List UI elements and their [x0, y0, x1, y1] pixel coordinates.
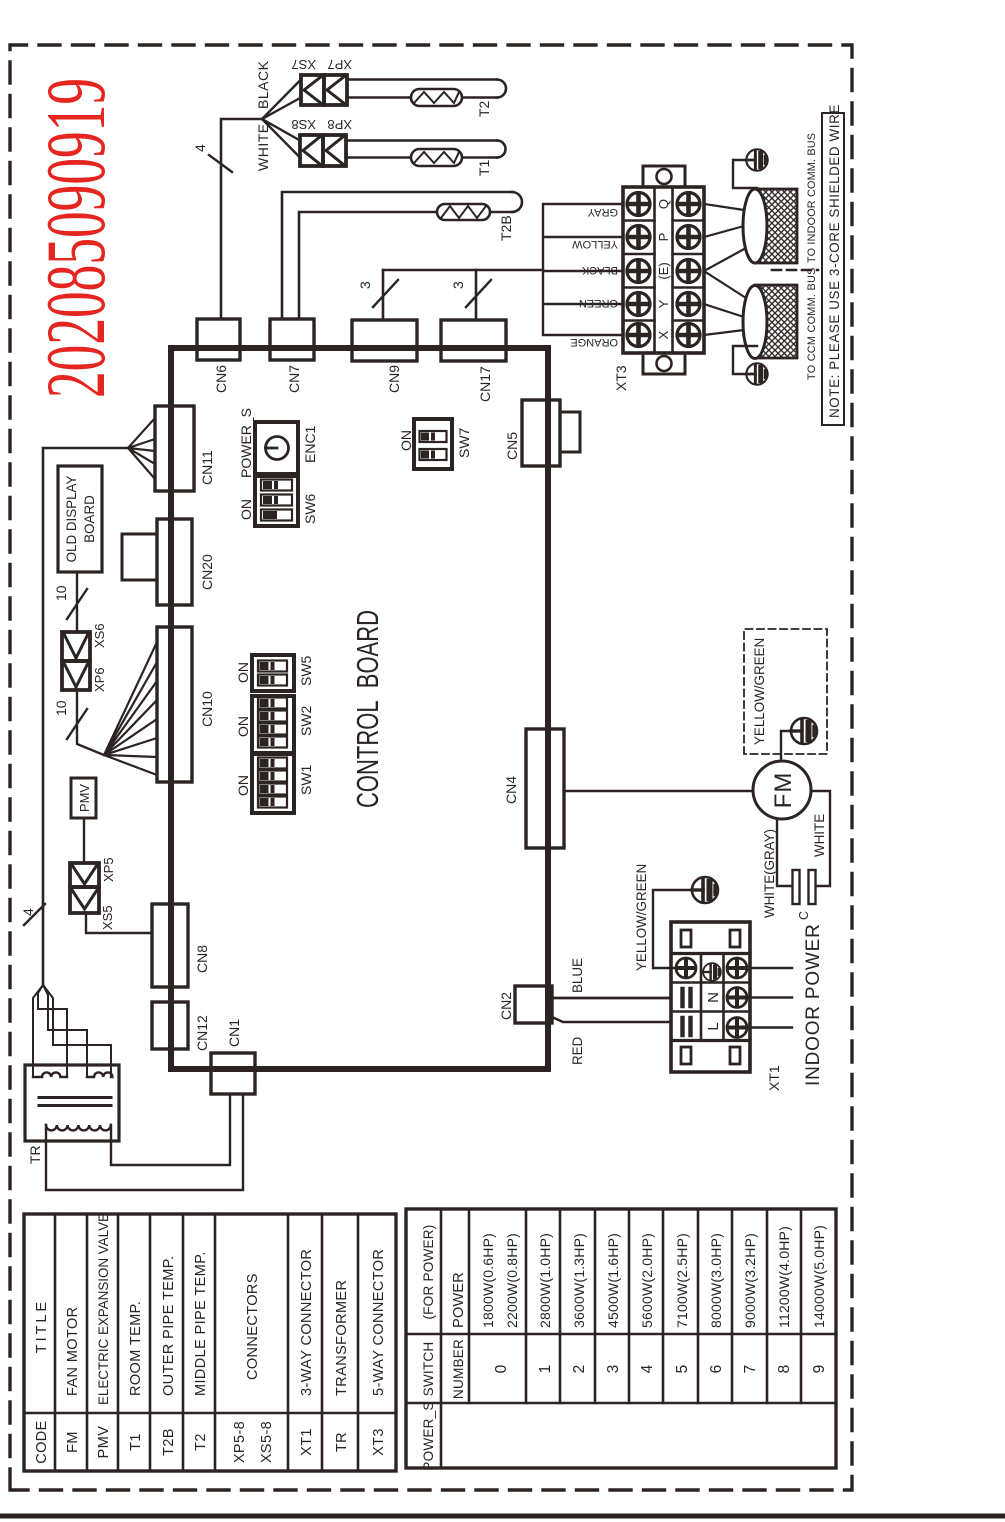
svg-text:XP5: XP5: [101, 857, 116, 882]
svg-text:ON: ON: [235, 716, 251, 737]
terminal block XT1: [671, 922, 782, 1091]
svg-text:XT3: XT3: [613, 365, 629, 391]
wire CN2 to XT1 (blue): [552, 997, 671, 1000]
bundle slash 4 on transformer wire: [20, 904, 45, 925]
svg-text:CONTROL BOARD: CONTROL BOARD: [350, 610, 385, 808]
wire CN11 fan-out: [128, 418, 155, 479]
svg-text:CN9: CN9: [386, 365, 402, 393]
wire label BLACK: [581, 264, 618, 276]
svg-text:XT1: XT1: [299, 1428, 315, 1456]
svg-text:WHITE(GRAY): WHITE(GRAY): [762, 829, 777, 918]
bundle slash 3 on CN9 stub: [357, 280, 398, 307]
svg-text:XT1: XT1: [766, 1065, 782, 1091]
wire TR secondary to CN1 (inner): [111, 1094, 230, 1165]
wire CN17 stub to comm bus: [475, 270, 478, 319]
wire CN2 to XT1 (red): [552, 1017, 671, 1022]
wire label RED: [570, 1036, 585, 1065]
svg-text:7100W(2.5HP): 7100W(2.5HP): [674, 1233, 690, 1328]
svg-text:POWER_S: POWER_S: [421, 1401, 436, 1470]
document number stamp 202085090919: [29, 78, 123, 398]
svg-text:SW2: SW2: [298, 705, 314, 736]
bundle slash 10 on display wire: [53, 585, 87, 619]
svg-text:N: N: [705, 992, 722, 1003]
svg-text:SW7: SW7: [456, 427, 472, 458]
svg-text:1: 1: [537, 1365, 554, 1374]
wire XS6 to old display board: [76, 572, 78, 632]
svg-text:4: 4: [20, 908, 36, 916]
svg-text:1800W(0.6HP): 1800W(0.6HP): [480, 1233, 496, 1328]
wire label YELLOW/GREEN (xt1): [634, 864, 649, 971]
connector pair XP5: [70, 857, 116, 887]
wire XT1 earth screw to ground: [653, 890, 691, 968]
wire label WHITE: [255, 123, 271, 171]
svg-text:NUMBER: NUMBER: [451, 1339, 466, 1399]
wire XS5 to CN8: [86, 913, 152, 933]
svg-text:7: 7: [742, 1365, 759, 1374]
svg-text:CN4: CN4: [503, 776, 519, 804]
wire label BLACK: [255, 60, 271, 109]
svg-text:SWITCH: SWITCH: [421, 1342, 436, 1397]
wire FM to capacitor (right lead): [811, 791, 830, 886]
svg-text:TR: TR: [27, 1145, 43, 1164]
wire CN6 to sensor bundle node: [221, 119, 262, 319]
fan motor FM: [753, 761, 811, 819]
wire XT3 comb bus and screw stubs: [543, 204, 623, 335]
svg-text:T2: T2: [193, 1433, 209, 1451]
wire label WHITE: [812, 814, 827, 857]
svg-text:FM: FM: [770, 772, 797, 809]
thermistor T1 sensor loop: [346, 141, 506, 177]
svg-text:SW5: SW5: [298, 655, 314, 686]
svg-text:BLACK: BLACK: [255, 60, 271, 109]
svg-text:5: 5: [674, 1365, 691, 1374]
svg-text:XS5: XS5: [100, 905, 115, 930]
svg-text:INDOOR POWER: INDOOR POWER: [803, 923, 824, 1086]
svg-text:TR: TR: [334, 1432, 350, 1452]
connector pair XS6: [62, 623, 107, 661]
connector CN11: [155, 406, 215, 491]
wire CN10 fan-out: [104, 642, 157, 775]
svg-text:PMV: PMV: [77, 784, 92, 813]
label ON POWER_S: [238, 408, 254, 520]
capacitor C: [793, 870, 816, 920]
svg-text:2800W(1.0HP): 2800W(1.0HP): [537, 1233, 553, 1328]
table: CODE/TITLE legend: [24, 1214, 396, 1471]
svg-text:9: 9: [811, 1365, 828, 1374]
wire CN9 stub to comm bus: [382, 270, 385, 319]
svg-text:ELECTRIC EXPANSION VALVE: ELECTRIC EXPANSION VALVE: [96, 1213, 111, 1405]
svg-text:BOARD: BOARD: [82, 495, 97, 543]
XT1 output screws: [727, 958, 747, 1038]
svg-text:CN10: CN10: [199, 691, 215, 727]
svg-text:YELLOW: YELLOW: [572, 238, 618, 250]
dashed box YELLOW/GREEN earth lead: [744, 629, 827, 754]
terminal block XT3: [613, 166, 704, 391]
svg-text:(E): (E): [656, 262, 671, 279]
chassis ground (indoor power earth): [692, 877, 718, 903]
connector pair XP7: [324, 57, 352, 105]
connector CN7: [270, 319, 314, 393]
wire CN4 to fan motor: [564, 790, 753, 792]
svg-text:14000W(5.0HP): 14000W(5.0HP): [811, 1225, 827, 1328]
connector CN17: [441, 320, 506, 402]
dashed separator between cables: [772, 269, 818, 272]
svg-text:XP6: XP6: [92, 667, 107, 692]
dip switch SW2: [235, 696, 314, 753]
net label TO CCM COMM. BUS: [806, 267, 818, 380]
svg-text:ORANGE: ORANGE: [570, 336, 618, 348]
svg-text:CODE: CODE: [34, 1420, 50, 1464]
XT3 terminal labels X Y (E) P Q: [656, 199, 671, 339]
svg-text:CN20: CN20: [199, 554, 215, 590]
control board outline: [171, 348, 548, 1069]
wire comm riser to XT3 comb: [383, 269, 543, 272]
label INDOOR POWER: [803, 923, 824, 1086]
svg-text:FM: FM: [65, 1431, 81, 1453]
svg-text:T1: T1: [476, 159, 492, 176]
svg-text:C: C: [797, 911, 811, 920]
chassis ground (fan motor): [791, 718, 817, 744]
wire FM to protective earth: [781, 731, 790, 761]
svg-text:ENC1: ENC1: [302, 425, 318, 463]
svg-text:3: 3: [450, 281, 466, 289]
svg-text:CN11: CN11: [199, 450, 215, 485]
svg-text:2200W(0.8HP): 2200W(0.8HP): [504, 1233, 520, 1328]
connector CN12: [152, 1002, 210, 1051]
svg-text:Y: Y: [656, 299, 671, 308]
svg-text:XS7: XS7: [291, 57, 316, 72]
page dashed border frame: [10, 45, 852, 1490]
svg-text:X: X: [656, 330, 671, 339]
svg-text:0: 0: [493, 1364, 510, 1373]
connector pair XS7: [291, 57, 324, 105]
bundle slash 4 on CN6 wire: [192, 144, 232, 172]
wire bundle fan into TR primary: [33, 985, 111, 1077]
svg-text:202085090919: 202085090919: [29, 78, 123, 398]
svg-text:RED: RED: [570, 1036, 585, 1065]
svg-text:4: 4: [639, 1364, 656, 1373]
old display board: [58, 466, 102, 572]
svg-text:(FOR POWER): (FOR POWER): [421, 1224, 436, 1319]
svg-text:4500W(1.6HP): 4500W(1.6HP): [605, 1233, 621, 1328]
svg-text:CONNECTORS: CONNECTORS: [245, 1273, 261, 1380]
svg-text:SW6: SW6: [302, 493, 318, 524]
svg-text:10: 10: [53, 585, 69, 601]
shield ground hook wire (indoor cable): [733, 160, 757, 188]
svg-text:WHITE: WHITE: [255, 123, 271, 171]
svg-text:XT3: XT3: [371, 1428, 387, 1456]
wire label BLUE: [570, 958, 585, 993]
svg-text:WHITE: WHITE: [812, 814, 827, 857]
note box: shielded wire notice: [822, 104, 844, 425]
svg-text:MIDDLE PIPE TEMP.: MIDDLE PIPE TEMP.: [193, 1251, 209, 1396]
connector CN1: [211, 1019, 255, 1094]
svg-text:OUTER PIPE TEMP.: OUTER PIPE TEMP.: [161, 1256, 177, 1396]
svg-text:POWER_S: POWER_S: [238, 408, 254, 478]
svg-text:6: 6: [708, 1365, 725, 1374]
wire label GREEN: [579, 297, 618, 309]
wire label ORANGE: [570, 336, 618, 348]
connector pair XP6: [62, 661, 107, 692]
svg-text:8000W(3.0HP): 8000W(3.0HP): [708, 1233, 724, 1328]
svg-text:8: 8: [776, 1365, 793, 1374]
svg-text:XP8: XP8: [327, 117, 352, 132]
svg-text:TRANSFORMER: TRANSFORMER: [334, 1280, 350, 1396]
valve PMV: [71, 778, 96, 818]
connector CN5: [504, 400, 580, 466]
XT1 earth screw: [676, 958, 696, 978]
svg-text:3: 3: [357, 281, 373, 289]
dip switch SW6: [255, 476, 318, 526]
svg-text:5-WAY CONNECTOR: 5-WAY CONNECTOR: [371, 1249, 387, 1396]
wires XT3 to shielded cables: [704, 204, 746, 335]
wire CN11 bundle to transformer: [43, 448, 128, 985]
svg-text:XS5-8: XS5-8: [259, 1421, 275, 1463]
XT1 small earth mark: [703, 963, 721, 981]
wire label YELLOW: [572, 238, 618, 250]
svg-text:ON: ON: [398, 430, 414, 451]
svg-text:CN17: CN17: [477, 366, 493, 402]
svg-text:XS8: XS8: [291, 117, 316, 132]
chassis ground (indoor cable shield): [746, 149, 767, 170]
connector CN9: [352, 320, 417, 393]
svg-text:CN7: CN7: [286, 365, 302, 393]
shielded cable to indoor comm bus: [743, 189, 797, 263]
svg-text:YELLOW/GREEN: YELLOW/GREEN: [634, 864, 649, 971]
wire FM to capacitor (left lead): [777, 819, 792, 886]
connector CN8: [152, 904, 210, 987]
shield ground hook wire (ccm cable): [733, 346, 757, 374]
connector CN4: [503, 729, 564, 848]
svg-text:CN12: CN12: [194, 1015, 210, 1051]
net label TO INDOOR COMM. BUS: [806, 133, 818, 263]
bundle slash 3 on CN17 stub: [450, 280, 491, 307]
connector CN10: [157, 627, 215, 782]
dip switch SW1: [235, 754, 314, 813]
svg-text:TO CCM COMM. BUS: TO CCM COMM. BUS: [806, 267, 818, 380]
svg-text:CN2: CN2: [498, 992, 514, 1020]
page outer solid edge line: [0, 1514, 1005, 1519]
svg-text:XP5-8: XP5-8: [232, 1421, 248, 1463]
svg-text:4: 4: [192, 144, 208, 152]
connector CN6: [197, 319, 240, 393]
svg-text:3-WAY CONNECTOR: 3-WAY CONNECTOR: [299, 1249, 315, 1396]
svg-text:OLD DISPLAY: OLD DISPLAY: [64, 476, 79, 563]
transformer TR: [25, 1065, 119, 1164]
svg-text:SW1: SW1: [298, 764, 314, 795]
svg-text:3600W(1.3HP): 3600W(1.3HP): [571, 1233, 587, 1328]
svg-text:FAN MOTOR: FAN MOTOR: [65, 1306, 81, 1396]
svg-text:NOTE: PLEASE USE 3-CORE SHIELD: NOTE: PLEASE USE 3-CORE SHIELDED WIRE: [827, 104, 842, 418]
svg-text:CN6: CN6: [213, 365, 229, 393]
wire XP6 to CN10 bundle: [77, 690, 104, 755]
svg-text:9000W(3.2HP): 9000W(3.2HP): [742, 1233, 758, 1328]
svg-text:Q: Q: [656, 199, 671, 209]
svg-text:PMV: PMV: [96, 1426, 112, 1459]
svg-text:POWER: POWER: [451, 1272, 467, 1328]
svg-text:BLACK: BLACK: [581, 264, 618, 276]
wire PMV to XP5: [83, 818, 85, 863]
wire label GRAY: [587, 206, 618, 218]
svg-text:CN5: CN5: [504, 432, 520, 460]
svg-text:11200W(4.0HP): 11200W(4.0HP): [776, 1226, 792, 1328]
wire label WHITE(GRAY): [762, 829, 777, 918]
svg-text:P: P: [656, 233, 671, 242]
svg-text:T1: T1: [128, 1433, 144, 1451]
XT3 screw row top: [627, 193, 650, 347]
rotary encoder ENC1: [255, 422, 318, 474]
connector pair XP8: [323, 117, 352, 166]
thermistor T2B sensor loop from CN7: [282, 192, 522, 319]
connector pair XS5: [70, 887, 115, 930]
svg-text:XS6: XS6: [92, 623, 107, 648]
svg-text:YELLOW/GREEN: YELLOW/GREEN: [752, 638, 767, 745]
svg-text:GREEN: GREEN: [579, 297, 618, 309]
svg-text:TO INDOOR COMM. BUS: TO INDOOR COMM. BUS: [806, 133, 818, 263]
svg-text:TITLE: TITLE: [34, 1299, 50, 1353]
shielded cable to CCM comm bus: [743, 285, 797, 359]
wire TR secondary to CN1 (outer): [46, 1094, 243, 1190]
control board title: [350, 610, 385, 808]
svg-text:T2: T2: [476, 100, 492, 117]
chassis ground (ccm cable shield): [746, 363, 767, 384]
svg-text:10: 10: [53, 700, 69, 716]
svg-text:2: 2: [571, 1365, 588, 1374]
bundle slash 10 on XP6 wire: [53, 700, 87, 739]
svg-text:GRAY: GRAY: [587, 206, 618, 218]
svg-text:CN8: CN8: [194, 945, 210, 973]
thermistor T2 sensor loop: [347, 80, 506, 118]
svg-text:CN1: CN1: [226, 1019, 242, 1047]
connector pair XS8: [291, 117, 323, 166]
dip switch SW5: [235, 655, 314, 691]
connector CN20: [122, 519, 215, 605]
svg-text:L: L: [705, 1022, 722, 1030]
svg-text:ON: ON: [235, 775, 251, 796]
svg-text:ON: ON: [235, 662, 251, 683]
svg-text:ROOM TEMP.: ROOM TEMP.: [128, 1301, 144, 1396]
dip switch SW7: [398, 419, 472, 469]
svg-text:XP7: XP7: [327, 57, 352, 72]
wires XT1 to indoor power leads: [750, 968, 792, 1028]
connector CN2: [498, 986, 552, 1023]
svg-text:5600W(2.0HP): 5600W(2.0HP): [639, 1233, 655, 1328]
svg-text:ON: ON: [238, 499, 254, 520]
svg-text:BLUE: BLUE: [570, 958, 585, 993]
node: sensor fan-out to XS7/XS8: [262, 80, 301, 158]
XT3 screw row bottom: [677, 193, 700, 347]
svg-text:T2B: T2B: [498, 215, 514, 241]
svg-text:T2B: T2B: [161, 1428, 177, 1456]
svg-text:3: 3: [605, 1365, 622, 1374]
table: POWER_S SWITCH power settings: [406, 1209, 836, 1468]
